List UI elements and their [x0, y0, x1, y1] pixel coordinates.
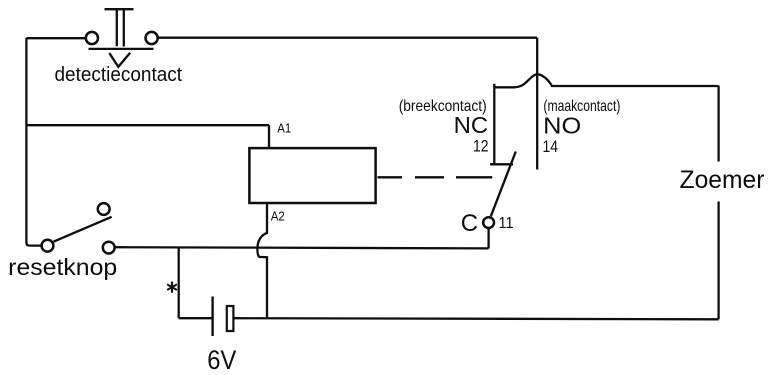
svg-text:12: 12: [473, 137, 489, 156]
dashed mechanical link relay to contact: [378, 176, 493, 178]
wire: NO drop vertical (terminal 14 lead): [536, 38, 538, 170]
wire: bottom left to battery: [179, 317, 212, 319]
svg-text:14: 14: [543, 137, 559, 156]
NC contact line (terminal 12): [490, 84, 513, 165]
resetknop switch: [42, 203, 115, 253]
wire: common C vertical: [487, 228, 489, 248]
wire: top-left horizontal to detectiecontact: [26, 37, 85, 39]
svg-text:A1: A1: [277, 121, 291, 136]
wire: top horizontal to NO branch: [158, 37, 537, 39]
wire: A1 drop: [268, 125, 270, 147]
wire: battery branch vertical: [178, 248, 180, 319]
svg-text:NC: NC: [454, 112, 489, 138]
wire: left vertical bus: [26, 38, 41, 246]
svg-text:NO: NO: [543, 113, 581, 139]
svg-text:detectiecontact: detectiecontact: [55, 64, 183, 86]
svg-text:6V: 6V: [207, 345, 236, 375]
svg-text:11: 11: [499, 215, 514, 232]
wire: A2 lead with hop over reset wire: [257, 203, 267, 318]
wire: zoemer lower lead: [717, 202, 719, 320]
svg-text:Zoemer: Zoemer: [680, 166, 765, 194]
svg-text:resetknop: resetknop: [8, 254, 117, 280]
battery 6V: [213, 297, 234, 337]
common contact terminal C (pin 11): [483, 217, 494, 228]
wire: resetknop to common contact: [115, 247, 489, 248]
wire: NC top to zoemer with hop over NO line: [494, 74, 718, 87]
asterisk note marker: [167, 282, 177, 293]
switch arm from C toward NC: [491, 152, 516, 217]
wire: second horizontal to A1: [26, 124, 269, 126]
wire: bottom rail battery to zoemer: [234, 318, 719, 319]
svg-text:A2: A2: [271, 208, 285, 223]
detectiecontact push-button switch: [86, 9, 158, 67]
wire: zoemer upper lead: [717, 86, 719, 162]
svg-text:C: C: [461, 210, 478, 237]
relay coil K1: [249, 148, 375, 203]
